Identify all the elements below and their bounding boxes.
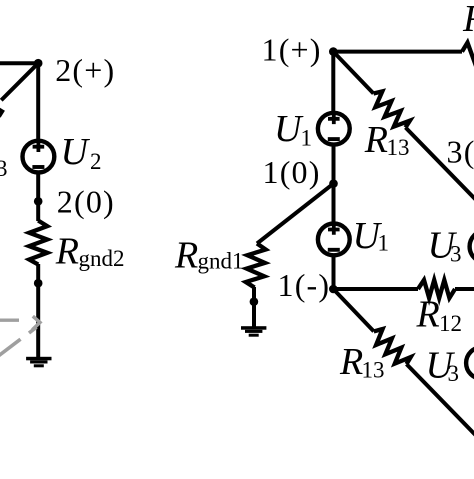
svg-text:U: U	[274, 108, 304, 150]
voltage source U1b	[318, 224, 350, 256]
partial resistor at top-right edge	[462, 43, 474, 61]
wire diagonal from node 1(0) to R_gnd1	[257, 184, 334, 244]
node between R_gnd1 and ground	[250, 297, 259, 306]
wire from U2 to resistor R_gnd2	[36, 174, 40, 221]
svg-text:1: 1	[301, 126, 313, 151]
wire horizontal into node 2(+) from left edge	[0, 61, 38, 65]
wire from R_gnd1 to ground	[252, 287, 256, 327]
partial zigzag of off-canvas resistor at left edge	[0, 106, 5, 118]
wire from node 2(+) down to U2	[36, 63, 40, 140]
svg-text:R: R	[174, 234, 198, 276]
svg-text:3: 3	[448, 361, 460, 386]
wire diagonal from node 1(-) to R13 (bottom)	[333, 289, 374, 331]
voltage source U3 (lower, partial at right edge)	[466, 347, 474, 379]
node between R_gnd2 and ground	[34, 279, 43, 288]
svg-text:12: 12	[439, 311, 462, 336]
ground (left, under R_gnd2)	[26, 357, 51, 368]
wire from R_gnd2 to ground	[36, 264, 40, 357]
ground (under R_gnd1)	[241, 326, 266, 337]
svg-text:R: R	[416, 294, 440, 336]
svg-text:1(-): 1(-)	[278, 267, 331, 303]
resistor R13 (top diagonal)	[374, 91, 410, 127]
svg-text:3: 3	[450, 242, 462, 267]
svg-text:2: 2	[90, 149, 102, 174]
node 1(0)	[329, 179, 338, 188]
svg-text:R: R	[364, 119, 388, 161]
svg-text:1: 1	[378, 231, 390, 256]
wire from R12 to right edge	[455, 287, 474, 291]
resistor R12	[418, 280, 455, 298]
wire diagonal from R13 (top) toward node 3 off-canvas	[406, 128, 474, 203]
svg-text:13: 13	[387, 135, 410, 160]
node 1(-)	[329, 285, 338, 294]
svg-text:gnd2: gnd2	[79, 246, 125, 271]
voltage source U2	[23, 141, 55, 173]
wire diagonal from node 2(+) down-left toward off-canvas R_23	[1, 63, 38, 100]
gray dashed diagonal annotation	[0, 327, 37, 356]
svg-text:13: 13	[362, 358, 385, 383]
svg-text:R: R	[55, 231, 79, 273]
resistor R_gnd2	[29, 221, 47, 265]
wire diagonal from node 1(+) to R13 (top)	[333, 52, 373, 94]
svg-text:1(0): 1(0)	[263, 154, 321, 190]
wire from node 1(+) down to U1 (top)	[331, 52, 335, 112]
gray dashed horizontal arrow annotation	[0, 316, 40, 330]
svg-text:R: R	[339, 341, 363, 383]
resistor R_gnd1	[246, 244, 266, 288]
node 2(+)	[34, 59, 43, 68]
svg-text:U: U	[61, 131, 91, 173]
svg-text:R: R	[462, 0, 474, 40]
wire diagonal from R13 (bottom) off bottom-right	[407, 364, 474, 435]
node 2(0)	[34, 197, 43, 206]
svg-text:3: 3	[0, 156, 8, 181]
svg-text:gnd1: gnd1	[198, 249, 244, 274]
svg-text:1(+): 1(+)	[262, 31, 322, 67]
svg-text:3(: 3(	[447, 134, 474, 170]
svg-text:2(+): 2(+)	[55, 52, 115, 88]
wire from node 1(+) to top-right resistor	[333, 50, 462, 54]
resistor R13 (bottom diagonal)	[374, 329, 411, 364]
voltage source U1a	[318, 113, 350, 145]
wire from U1 (top) to node 1(0)	[332, 146, 336, 222]
voltage source U3 (upper, partial at right edge)	[470, 231, 474, 263]
svg-text:2(0): 2(0)	[57, 184, 115, 220]
node 1(+)	[329, 47, 338, 56]
wire from node 1(-) to R12	[333, 287, 418, 291]
wire from U1 (bottom) to node 1(-)	[332, 257, 336, 289]
